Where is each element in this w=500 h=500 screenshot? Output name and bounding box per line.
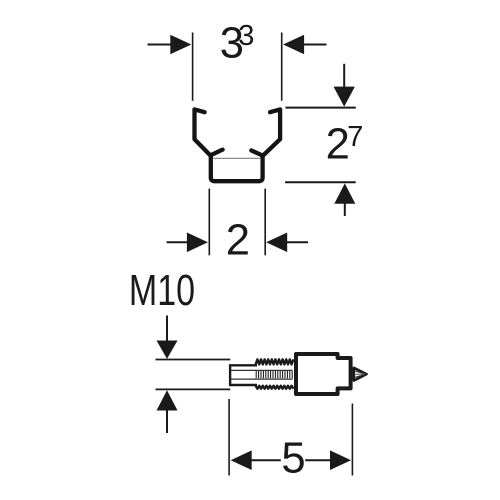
svg-text:7: 7 [347, 121, 363, 153]
svg-text:3: 3 [238, 20, 254, 52]
svg-text:M10: M10 [129, 267, 195, 315]
svg-text:5: 5 [281, 435, 305, 483]
svg-text:2: 2 [226, 216, 250, 264]
